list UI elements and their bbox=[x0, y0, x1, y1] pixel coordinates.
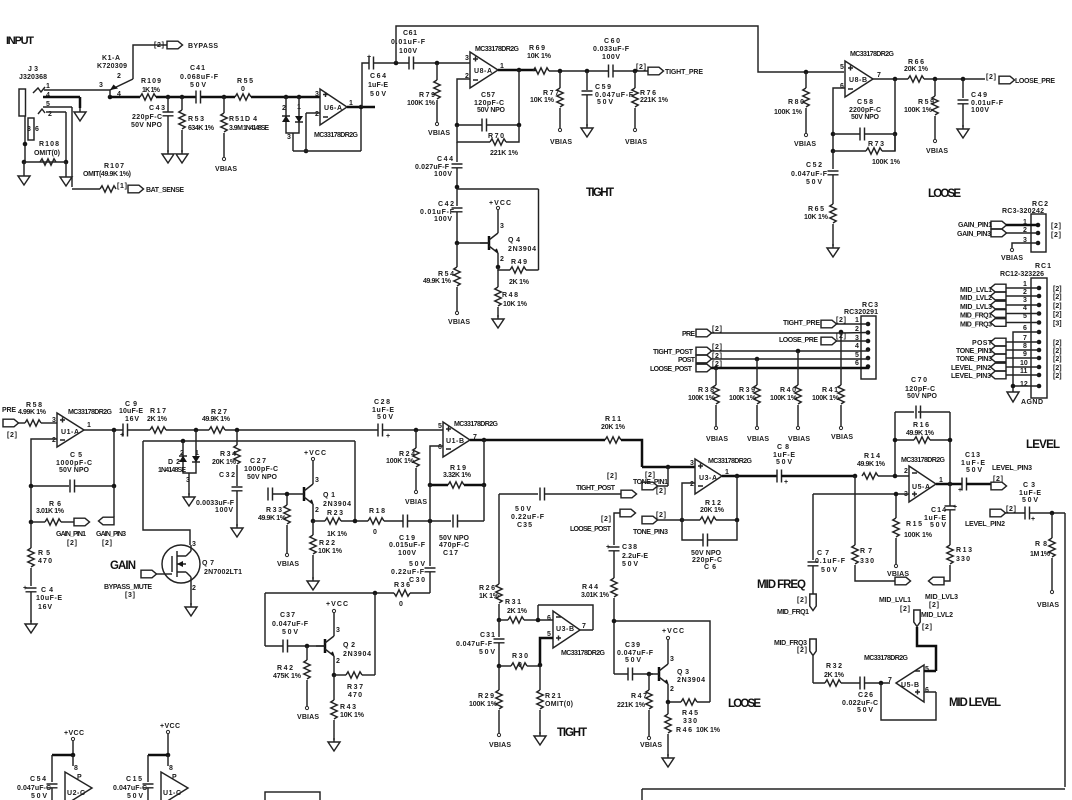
svg-text:2N3904: 2N3904 bbox=[677, 677, 705, 684]
svg-text:0.027uF-F: 0.027uF-F bbox=[415, 164, 450, 171]
svg-text:20K 1%: 20K 1% bbox=[212, 459, 237, 466]
svg-text:LOOSE: LOOSE bbox=[928, 188, 961, 200]
svg-text:C59: C59 bbox=[595, 84, 611, 91]
svg-text:C27: C27 bbox=[250, 458, 266, 465]
svg-text:221K 1%: 221K 1% bbox=[640, 97, 669, 104]
svg-text:50V: 50V bbox=[622, 561, 638, 568]
svg-text:U6-A: U6-A bbox=[324, 105, 342, 112]
svg-text:R53: R53 bbox=[188, 116, 204, 123]
svg-text:0.047uF-F: 0.047uF-F bbox=[617, 650, 654, 657]
svg-text:BYPASS: BYPASS bbox=[188, 43, 218, 50]
svg-text:C41: C41 bbox=[190, 65, 205, 72]
svg-text:330: 330 bbox=[956, 556, 970, 563]
svg-text:R21: R21 bbox=[545, 693, 561, 700]
svg-text:R30: R30 bbox=[512, 653, 528, 660]
svg-text:LOOSE_PRE: LOOSE_PRE bbox=[779, 337, 818, 344]
svg-text:6: 6 bbox=[855, 360, 859, 367]
svg-text:100V: 100V bbox=[971, 107, 989, 114]
svg-text:MC33178DR2G: MC33178DR2G bbox=[314, 132, 359, 139]
svg-text:R14: R14 bbox=[864, 453, 880, 460]
svg-text:MID_FRQ1: MID_FRQ1 bbox=[777, 609, 809, 616]
svg-text:0.22uF-F: 0.22uF-F bbox=[511, 514, 545, 521]
svg-text:50V: 50V bbox=[479, 649, 495, 656]
svg-text:LOOSE_POST: LOOSE_POST bbox=[570, 526, 612, 533]
svg-text:[2]: [2] bbox=[1053, 365, 1062, 372]
svg-text:2K 1%: 2K 1% bbox=[147, 416, 168, 423]
svg-text:100V: 100V bbox=[398, 550, 416, 557]
svg-text:R27: R27 bbox=[211, 409, 227, 416]
svg-text:R44: R44 bbox=[582, 584, 598, 591]
svg-text:[2]: [2] bbox=[986, 74, 996, 81]
svg-text:0: 0 bbox=[373, 529, 377, 536]
svg-text:49.9K 1%: 49.9K 1% bbox=[857, 461, 886, 468]
svg-text:100K 1%: 100K 1% bbox=[812, 395, 840, 402]
svg-text:50V: 50V bbox=[377, 414, 393, 421]
svg-text:R46: R46 bbox=[676, 727, 692, 734]
svg-text:470pF-C: 470pF-C bbox=[439, 542, 469, 549]
svg-text:C43: C43 bbox=[149, 105, 165, 112]
svg-text:C14: C14 bbox=[931, 507, 946, 514]
svg-text:U1-B: U1-B bbox=[446, 438, 464, 445]
svg-text:100K 1%: 100K 1% bbox=[904, 532, 933, 539]
svg-text:100V: 100V bbox=[602, 54, 620, 61]
svg-text:49.9K 1%: 49.9K 1% bbox=[258, 515, 287, 522]
svg-text:R22: R22 bbox=[319, 540, 335, 547]
svg-text:C26: C26 bbox=[858, 692, 873, 699]
svg-text:GAIN_PIN3: GAIN_PIN3 bbox=[96, 531, 126, 538]
svg-text:1uF-E: 1uF-E bbox=[372, 407, 394, 414]
svg-text:2: 2 bbox=[52, 437, 56, 444]
svg-text:[2]: [2] bbox=[1051, 232, 1061, 239]
svg-text:2N3904: 2N3904 bbox=[323, 501, 351, 508]
svg-text:1M 1%: 1M 1% bbox=[1030, 551, 1051, 558]
svg-text:C15: C15 bbox=[126, 776, 142, 783]
svg-text:LEVEL: LEVEL bbox=[1026, 439, 1060, 451]
svg-text:11: 11 bbox=[1020, 368, 1028, 375]
svg-text:100K 1%: 100K 1% bbox=[904, 107, 933, 114]
svg-text:R80: R80 bbox=[788, 99, 804, 106]
svg-text:+VCC: +VCC bbox=[489, 200, 511, 207]
svg-text:3: 3 bbox=[465, 55, 469, 62]
svg-text:1: 1 bbox=[87, 422, 91, 429]
svg-text:2K 1%: 2K 1% bbox=[507, 608, 528, 615]
svg-text:R47: R47 bbox=[631, 693, 647, 700]
svg-text:R51: R51 bbox=[229, 116, 244, 123]
svg-text:POST: POST bbox=[678, 357, 696, 364]
svg-text:3: 3 bbox=[1023, 297, 1027, 304]
svg-text:[2]: [2] bbox=[1053, 340, 1062, 347]
svg-text:2K 1%: 2K 1% bbox=[824, 672, 845, 679]
svg-text:MID_LVL1: MID_LVL1 bbox=[879, 597, 911, 604]
svg-text:MID_LVL3: MID_LVL3 bbox=[960, 304, 992, 311]
svg-text:8: 8 bbox=[169, 765, 173, 772]
svg-text:10K 1%: 10K 1% bbox=[696, 727, 721, 734]
svg-text:R79: R79 bbox=[419, 92, 435, 99]
svg-text:[2]: [2] bbox=[636, 64, 646, 71]
svg-text:[2]: [2] bbox=[656, 512, 666, 519]
svg-text:50V NPO: 50V NPO bbox=[851, 114, 880, 121]
svg-text:R43: R43 bbox=[340, 704, 356, 711]
svg-text:MC33178DR2G: MC33178DR2G bbox=[561, 650, 606, 657]
svg-text:10uF-E: 10uF-E bbox=[36, 595, 62, 602]
svg-text:[2]: [2] bbox=[836, 317, 846, 324]
svg-text:120pF-C: 120pF-C bbox=[474, 100, 504, 107]
svg-text:[3]: [3] bbox=[125, 592, 135, 599]
svg-text:VBIAS: VBIAS bbox=[277, 561, 299, 568]
svg-text:[1]: [1] bbox=[117, 183, 127, 190]
svg-text:100K 1%: 100K 1% bbox=[774, 109, 803, 116]
svg-text:LOOSE_PRE: LOOSE_PRE bbox=[1015, 78, 1055, 85]
svg-text:TONE_PIN3: TONE_PIN3 bbox=[633, 529, 668, 536]
svg-text:4: 4 bbox=[1023, 305, 1027, 312]
svg-text:330: 330 bbox=[683, 718, 697, 725]
svg-text:3: 3 bbox=[99, 82, 103, 89]
svg-text:R31: R31 bbox=[505, 599, 521, 606]
svg-text:100K 1%: 100K 1% bbox=[386, 458, 415, 465]
svg-text:220pF-C: 220pF-C bbox=[692, 557, 722, 564]
svg-text:MC33178DR2G: MC33178DR2G bbox=[475, 46, 520, 53]
svg-text:GAIN_PIN3: GAIN_PIN3 bbox=[957, 231, 991, 238]
svg-text:[2]: [2] bbox=[712, 344, 722, 351]
svg-text:10K 1%: 10K 1% bbox=[340, 712, 365, 719]
svg-text:MID_LVL2: MID_LVL2 bbox=[921, 612, 953, 619]
svg-text:+: + bbox=[1031, 516, 1035, 523]
svg-text:MID_FRQ1: MID_FRQ1 bbox=[960, 313, 992, 320]
svg-text:LOOSE: LOOSE bbox=[728, 698, 761, 710]
svg-text:R38: R38 bbox=[698, 387, 714, 394]
svg-text:1N4148SE: 1N4148SE bbox=[243, 125, 269, 132]
svg-text:R69: R69 bbox=[529, 45, 545, 52]
svg-text:TIGHT: TIGHT bbox=[557, 727, 587, 739]
svg-text:GAIN_PIN1: GAIN_PIN1 bbox=[958, 222, 992, 229]
svg-text:TIGHT_PRE: TIGHT_PRE bbox=[783, 320, 820, 327]
svg-text:0.047uF-F: 0.047uF-F bbox=[791, 171, 828, 178]
svg-text:10K 1%: 10K 1% bbox=[530, 97, 555, 104]
svg-text:5: 5 bbox=[438, 423, 442, 430]
svg-text:+VCC: +VCC bbox=[64, 730, 84, 737]
svg-text:MID_LVL1: MID_LVL1 bbox=[960, 287, 992, 294]
svg-text:[2]: [2] bbox=[607, 473, 617, 480]
svg-text:100V: 100V bbox=[434, 216, 452, 223]
svg-text:3.9M: 3.9M bbox=[229, 125, 243, 132]
svg-text:TIGHT: TIGHT bbox=[586, 187, 614, 199]
svg-text:C38: C38 bbox=[622, 544, 637, 551]
svg-text:12: 12 bbox=[1020, 381, 1028, 388]
svg-text:C52: C52 bbox=[806, 162, 822, 169]
svg-text:LEVEL_PIN2: LEVEL_PIN2 bbox=[965, 521, 1005, 528]
svg-text:VBIAS: VBIAS bbox=[550, 139, 572, 146]
svg-text:2: 2 bbox=[855, 326, 859, 333]
svg-text:VBIAS: VBIAS bbox=[448, 319, 470, 326]
svg-text:330: 330 bbox=[860, 558, 874, 565]
svg-text:[2]: [2] bbox=[797, 647, 807, 654]
svg-text:OMIT(0): OMIT(0) bbox=[545, 701, 573, 708]
svg-text:2N3904: 2N3904 bbox=[343, 651, 371, 658]
svg-text:1: 1 bbox=[855, 317, 859, 324]
svg-text:7: 7 bbox=[888, 677, 892, 684]
svg-text:C17: C17 bbox=[443, 550, 458, 557]
svg-text:1uF-E: 1uF-E bbox=[1019, 490, 1041, 497]
svg-text:POST: POST bbox=[972, 340, 993, 347]
svg-text:50V NPO: 50V NPO bbox=[131, 122, 163, 129]
svg-text:100V: 100V bbox=[399, 48, 417, 55]
svg-text:RC12-323226: RC12-323226 bbox=[1000, 271, 1044, 278]
svg-text:R16: R16 bbox=[913, 422, 929, 429]
svg-text:C61: C61 bbox=[403, 30, 417, 37]
svg-text:R32: R32 bbox=[826, 663, 842, 670]
svg-text:MID_LVL3: MID_LVL3 bbox=[925, 594, 958, 601]
svg-text:2: 2 bbox=[315, 507, 319, 514]
svg-text:R42: R42 bbox=[277, 665, 293, 672]
svg-text:R19: R19 bbox=[450, 465, 466, 472]
svg-text:C70: C70 bbox=[911, 377, 927, 384]
svg-text:[2]: [2] bbox=[1053, 348, 1062, 355]
svg-text:50V: 50V bbox=[776, 459, 792, 466]
svg-text:MID LEVEL: MID LEVEL bbox=[949, 697, 1001, 709]
svg-text:2: 2 bbox=[690, 481, 694, 488]
svg-text:100V: 100V bbox=[434, 171, 452, 178]
svg-text:20K 1%: 20K 1% bbox=[601, 424, 626, 431]
svg-text:+VCC: +VCC bbox=[304, 450, 326, 457]
svg-text:50V: 50V bbox=[31, 793, 47, 800]
svg-text:[2]: [2] bbox=[922, 624, 932, 631]
svg-text:RC1: RC1 bbox=[1035, 263, 1051, 270]
svg-text:TIGHT_POST: TIGHT_POST bbox=[653, 349, 694, 356]
svg-text:0.047uF-C: 0.047uF-C bbox=[113, 785, 147, 792]
svg-text:VBIAS: VBIAS bbox=[428, 130, 450, 137]
svg-text:7: 7 bbox=[877, 72, 881, 79]
svg-text:[2]: [2] bbox=[656, 488, 666, 495]
svg-text:3.01K 1%: 3.01K 1% bbox=[581, 592, 610, 599]
svg-text:2200pF-C: 2200pF-C bbox=[849, 107, 881, 114]
svg-text:100K 1%: 100K 1% bbox=[872, 159, 901, 166]
svg-text:+VCC: +VCC bbox=[662, 628, 684, 635]
svg-text:1K 1%: 1K 1% bbox=[327, 531, 348, 538]
svg-text:R34: R34 bbox=[220, 451, 236, 458]
svg-text:VBIAS: VBIAS bbox=[794, 141, 816, 148]
svg-text:+VCC: +VCC bbox=[160, 723, 180, 730]
svg-text:10: 10 bbox=[1020, 360, 1028, 367]
svg-text:3.01K 1%: 3.01K 1% bbox=[36, 508, 65, 515]
svg-text:9: 9 bbox=[1023, 351, 1027, 358]
svg-text:OMIT(49.9K 1%): OMIT(49.9K 1%) bbox=[83, 171, 131, 178]
svg-text:R17: R17 bbox=[150, 408, 166, 415]
svg-text:R36: R36 bbox=[394, 582, 410, 589]
svg-text:100V: 100V bbox=[215, 507, 233, 514]
svg-text:[2]: [2] bbox=[1053, 286, 1062, 293]
svg-text:R73: R73 bbox=[868, 141, 884, 148]
svg-text:50V NPO: 50V NPO bbox=[439, 535, 470, 542]
svg-text:MC33178DR2G: MC33178DR2G bbox=[454, 421, 499, 428]
svg-text:U1-C: U1-C bbox=[163, 790, 181, 797]
svg-text:U3-B: U3-B bbox=[556, 626, 574, 633]
svg-text:50V NPO: 50V NPO bbox=[247, 474, 278, 481]
svg-text:10K 1%: 10K 1% bbox=[527, 53, 552, 60]
svg-text:5: 5 bbox=[840, 64, 844, 71]
svg-text:LOOSE_POST: LOOSE_POST bbox=[650, 366, 693, 373]
svg-text:+: + bbox=[958, 487, 962, 494]
svg-text:[2]: [2] bbox=[601, 516, 611, 523]
svg-text:R48: R48 bbox=[502, 292, 518, 299]
svg-text:VBIAS: VBIAS bbox=[215, 166, 237, 173]
svg-text:3: 3 bbox=[192, 541, 196, 548]
svg-text:MC33178DR2G: MC33178DR2G bbox=[901, 457, 946, 464]
svg-text:3: 3 bbox=[670, 656, 674, 663]
svg-text:AGND: AGND bbox=[1021, 399, 1043, 406]
svg-text:0.015uF-F: 0.015uF-F bbox=[389, 542, 426, 549]
svg-text:R39: R39 bbox=[739, 387, 755, 394]
svg-text:BAT_SENSE: BAT_SENSE bbox=[146, 187, 184, 194]
svg-text:3: 3 bbox=[500, 223, 504, 230]
svg-text:3: 3 bbox=[315, 91, 319, 98]
svg-text:50V: 50V bbox=[409, 561, 425, 568]
svg-text:C44: C44 bbox=[437, 156, 453, 163]
svg-text:0.047uF-C: 0.047uF-C bbox=[17, 785, 51, 792]
svg-text:4.99K 1%: 4.99K 1% bbox=[18, 409, 47, 416]
svg-text:49.9K 1%: 49.9K 1% bbox=[202, 416, 231, 423]
svg-text:U5-A: U5-A bbox=[912, 484, 930, 491]
svg-text:50V: 50V bbox=[806, 179, 822, 186]
svg-text:MID_FRQ3: MID_FRQ3 bbox=[960, 322, 992, 329]
svg-text:50V: 50V bbox=[821, 567, 837, 574]
svg-text:C35: C35 bbox=[517, 522, 532, 529]
svg-text:R58: R58 bbox=[26, 402, 42, 409]
svg-text:49.9K 1%: 49.9K 1% bbox=[423, 278, 452, 285]
svg-text:C37: C37 bbox=[280, 612, 295, 619]
svg-text:2: 2 bbox=[670, 686, 674, 693]
svg-text:R70: R70 bbox=[488, 133, 504, 140]
svg-text:100K 1%: 100K 1% bbox=[688, 395, 716, 402]
svg-text:1000pF-C: 1000pF-C bbox=[244, 466, 278, 473]
svg-text:[2]: [2] bbox=[1051, 223, 1061, 230]
svg-text:C31: C31 bbox=[480, 632, 495, 639]
svg-text:VBIAS: VBIAS bbox=[926, 148, 948, 155]
svg-text:634K 1%: 634K 1% bbox=[188, 125, 215, 132]
svg-text:R54: R54 bbox=[438, 271, 454, 278]
svg-text:50V: 50V bbox=[282, 629, 298, 636]
svg-text:50V NPO: 50V NPO bbox=[691, 550, 722, 557]
svg-text:[2]: [2] bbox=[1053, 312, 1062, 319]
svg-text:R13: R13 bbox=[956, 547, 972, 554]
svg-text:VBIAS: VBIAS bbox=[625, 139, 647, 146]
svg-text:0.047uF-F: 0.047uF-F bbox=[456, 641, 493, 648]
svg-text:475K 1%: 475K 1% bbox=[273, 673, 302, 680]
svg-text:GAIN_PIN1: GAIN_PIN1 bbox=[56, 531, 86, 538]
svg-text:TIGHT_PRE: TIGHT_PRE bbox=[665, 69, 703, 76]
svg-text:50V: 50V bbox=[515, 506, 531, 513]
svg-text:[2]: [2] bbox=[1053, 303, 1062, 310]
svg-text:3: 3 bbox=[690, 460, 694, 467]
svg-text:TONE_PIN3: TONE_PIN3 bbox=[956, 356, 992, 363]
svg-text:[2]: [2] bbox=[900, 606, 910, 613]
svg-text:2K 1%: 2K 1% bbox=[509, 279, 530, 286]
svg-text:TIGHT_POST: TIGHT_POST bbox=[576, 485, 616, 492]
svg-text:C58: C58 bbox=[857, 99, 873, 106]
svg-text:50V NPO: 50V NPO bbox=[477, 107, 506, 114]
svg-text:6: 6 bbox=[438, 444, 442, 451]
svg-text:221K 1%: 221K 1% bbox=[490, 150, 519, 157]
svg-text:MC33178DR2G: MC33178DR2G bbox=[708, 458, 753, 465]
svg-text:MID FREQ: MID FREQ bbox=[757, 579, 806, 591]
svg-text:R11: R11 bbox=[605, 416, 621, 423]
svg-text:100K 1%: 100K 1% bbox=[407, 100, 436, 107]
svg-text:C42: C42 bbox=[438, 201, 454, 208]
svg-text:8: 8 bbox=[74, 765, 78, 772]
svg-text:[2]: [2] bbox=[797, 597, 807, 604]
svg-text:0.047uF-F: 0.047uF-F bbox=[595, 92, 634, 99]
svg-text:50V: 50V bbox=[625, 657, 641, 664]
svg-text:R29: R29 bbox=[478, 693, 494, 700]
svg-text:1N4148SE: 1N4148SE bbox=[158, 467, 186, 474]
svg-text:C32: C32 bbox=[219, 472, 235, 479]
svg-text:+VCC: +VCC bbox=[326, 601, 348, 608]
svg-text:RC3: RC3 bbox=[862, 302, 878, 309]
svg-text:50V: 50V bbox=[190, 82, 206, 89]
svg-text:VBIAS: VBIAS bbox=[831, 434, 853, 441]
svg-text:50V NPO: 50V NPO bbox=[59, 467, 90, 474]
svg-text:C19: C19 bbox=[399, 535, 415, 542]
svg-text:470: 470 bbox=[348, 692, 362, 699]
svg-text:VBIAS: VBIAS bbox=[405, 499, 427, 506]
svg-text:R12: R12 bbox=[705, 500, 721, 507]
svg-text:6: 6 bbox=[925, 687, 929, 694]
svg-text:C28: C28 bbox=[374, 399, 390, 406]
svg-text:RC2: RC2 bbox=[1032, 201, 1048, 208]
svg-text:R66: R66 bbox=[908, 59, 924, 66]
svg-text:1uF-E: 1uF-E bbox=[961, 460, 985, 467]
svg-text:[2]: [2] bbox=[645, 472, 655, 479]
svg-text:1uF-E: 1uF-E bbox=[924, 515, 946, 522]
svg-text:50V: 50V bbox=[966, 467, 982, 474]
svg-text:2.2uF-E: 2.2uF-E bbox=[622, 553, 648, 560]
svg-text:2: 2 bbox=[336, 658, 340, 665]
svg-text:20K 1%: 20K 1% bbox=[904, 66, 929, 73]
svg-text:100K 1%: 100K 1% bbox=[729, 395, 757, 402]
svg-text:20K 1%: 20K 1% bbox=[700, 507, 725, 514]
svg-text:10K 1%: 10K 1% bbox=[503, 301, 528, 308]
svg-text:16V: 16V bbox=[38, 604, 52, 611]
svg-text:+: + bbox=[386, 433, 390, 440]
svg-text:2N7002LT1: 2N7002LT1 bbox=[204, 569, 242, 576]
svg-text:7: 7 bbox=[582, 623, 586, 630]
svg-text:0.0033uF-F: 0.0033uF-F bbox=[196, 500, 235, 507]
svg-text:50V: 50V bbox=[127, 793, 143, 800]
svg-text:49.9K 1%: 49.9K 1% bbox=[906, 430, 935, 437]
svg-text:1uF-E: 1uF-E bbox=[368, 82, 388, 89]
svg-text:0.033uF-F: 0.033uF-F bbox=[593, 46, 630, 53]
svg-text:[2]: [2] bbox=[1053, 294, 1062, 301]
svg-text:R40: R40 bbox=[780, 387, 796, 394]
svg-text:3.32K 1%: 3.32K 1% bbox=[443, 472, 472, 479]
svg-text:[3]: [3] bbox=[1053, 321, 1062, 328]
svg-text:MID_LVL2: MID_LVL2 bbox=[960, 295, 992, 302]
svg-text:+: + bbox=[784, 479, 788, 486]
svg-text:+: + bbox=[120, 432, 124, 439]
svg-text:VBIAS: VBIAS bbox=[788, 436, 810, 443]
svg-text:R26: R26 bbox=[479, 585, 495, 592]
svg-text:10uF-E: 10uF-E bbox=[119, 408, 143, 415]
svg-text:U8-B: U8-B bbox=[849, 77, 867, 84]
svg-text:PRE: PRE bbox=[682, 331, 695, 338]
svg-text:U5-B: U5-B bbox=[901, 682, 919, 689]
svg-text:0.1uF-F: 0.1uF-F bbox=[815, 558, 846, 565]
svg-text:MC33178DR2G: MC33178DR2G bbox=[864, 655, 909, 662]
svg-text:1: 1 bbox=[46, 83, 50, 90]
svg-text:R55: R55 bbox=[237, 78, 253, 85]
svg-text:3: 3 bbox=[186, 477, 190, 484]
svg-text:C57: C57 bbox=[481, 92, 495, 99]
svg-text:0.047uF-F: 0.047uF-F bbox=[272, 621, 309, 628]
